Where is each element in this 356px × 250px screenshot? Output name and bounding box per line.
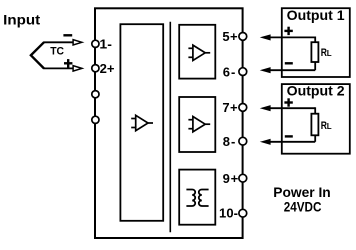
svg-text:7+: 7+ xyxy=(222,100,238,115)
svg-text:TC: TC xyxy=(50,45,64,57)
svg-text:9+: 9+ xyxy=(223,171,239,186)
svg-text:10-: 10- xyxy=(219,206,238,221)
svg-text:5+: 5+ xyxy=(222,29,238,44)
svg-text:6-: 6- xyxy=(223,64,236,79)
svg-text:1-: 1- xyxy=(99,36,112,51)
svg-text:Input: Input xyxy=(3,12,40,28)
svg-text:L: L xyxy=(327,49,332,58)
svg-text:8-: 8- xyxy=(223,134,236,149)
svg-text:Output 2: Output 2 xyxy=(287,83,345,99)
svg-text:Power In: Power In xyxy=(273,184,331,200)
svg-text:24VDC: 24VDC xyxy=(284,200,322,215)
svg-text:Output 1: Output 1 xyxy=(287,7,345,23)
svg-text:2+: 2+ xyxy=(100,61,115,76)
svg-text:L: L xyxy=(327,122,332,131)
